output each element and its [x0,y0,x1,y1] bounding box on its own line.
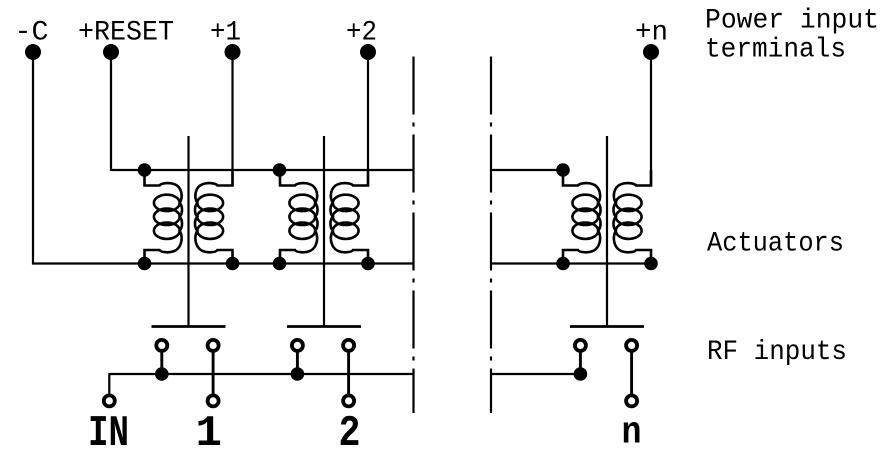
svg-text:Power input: Power input [705,6,879,37]
svg-text:+RESET: +RESET [78,18,174,49]
svg-text:+2: +2 [346,18,377,49]
svg-text:n: n [622,412,642,451]
svg-text:+1: +1 [210,18,241,49]
svg-text:terminals: terminals [705,34,846,65]
svg-text:2: 2 [339,409,361,451]
svg-text:Actuators: Actuators [707,228,844,259]
svg-text:IN: IN [88,409,129,451]
svg-text:-C: -C [15,18,49,49]
svg-text:RF inputs: RF inputs [707,337,847,368]
svg-text:1: 1 [196,409,223,451]
svg-text:+n: +n [635,18,668,49]
